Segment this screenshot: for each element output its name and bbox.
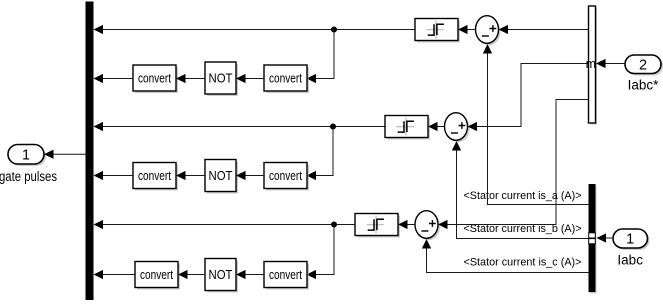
arrow into mux conv row3: [94, 270, 104, 279]
output port 1 "gate pulses": [8, 145, 46, 167]
arrow into mux row3: [94, 220, 104, 229]
junction row3: [331, 222, 337, 228]
svg-text:convert: convert: [269, 169, 302, 183]
NOT block row1: [205, 62, 238, 96]
arrow into relay3: [398, 220, 408, 229]
wire relay3 to mux: [103, 224, 355, 226]
arrow into mux row2: [94, 122, 104, 131]
demux bar (Iabc measured, black): [589, 184, 597, 294]
wire convert3b to NOT3: [246, 274, 265, 276]
convert block row2 right: [264, 163, 309, 191]
svg-text:Iabc: Iabc: [617, 253, 643, 268]
wire junction2 down: [316, 127, 334, 176]
wire demux to sum2 (ref ib*): [477, 64, 589, 127]
arrow into sum3 bottom: [422, 239, 431, 249]
sum block S2: [445, 113, 470, 143]
wire port2 to demux: [606, 63, 626, 65]
sum block S1: [476, 16, 501, 46]
demux bar (Iabc* reference): [589, 6, 598, 125]
arrow into mux conv row1: [94, 74, 104, 83]
relay R2: [385, 116, 430, 140]
sum block S3: [415, 211, 440, 241]
arrow into sum2 bottom: [452, 141, 461, 151]
svg-text:convert: convert: [138, 169, 171, 183]
wire mux to port 1: [53, 153, 86, 155]
wire convert2b to NOT2: [246, 175, 265, 177]
arrow into convert1a right: [176, 74, 186, 83]
wire sum2 to relay2: [438, 126, 445, 128]
arrow into sum1 right: [499, 25, 509, 34]
svg-text:NOT: NOT: [209, 267, 233, 282]
convert block row3 left: [135, 262, 180, 290]
arrow into mux conv row2: [94, 171, 104, 180]
wire junction1 down: [316, 30, 335, 79]
arrow into demux (Iabc): [597, 233, 607, 242]
svg-text:NOT: NOT: [209, 71, 233, 86]
wire port1 to demux: [606, 237, 613, 239]
wire is_a measured: [488, 54, 589, 205]
arrow into port 1: [44, 150, 54, 159]
arrow into mux row1: [94, 25, 104, 34]
wire NOT3 to convert3a: [188, 274, 206, 276]
wire demux to sum3 (ref ic*): [448, 100, 589, 225]
wire relay2 to mux: [103, 126, 385, 128]
NOT block row2: [205, 160, 238, 194]
port marker on demux: [589, 233, 596, 244]
convert block row1 left: [133, 65, 178, 93]
wire convert1a to mux: [103, 78, 133, 80]
arrow into convert2a right: [176, 171, 186, 180]
arrow into relay1: [458, 25, 468, 34]
input port 1 (Iabc): [613, 229, 650, 250]
arrow into convert2b: [307, 171, 317, 180]
svg-text:convert: convert: [140, 268, 173, 282]
NOT block row3: [205, 259, 238, 293]
wire is_c measured: [427, 249, 589, 273]
svg-text:2: 2: [639, 58, 647, 74]
svg-text:convert: convert: [138, 72, 171, 86]
svg-text:Iabc*: Iabc*: [628, 78, 660, 93]
svg-text:1: 1: [626, 232, 634, 248]
wire convert3a to mux: [103, 274, 135, 276]
junction row2: [330, 124, 336, 130]
svg-text:convert: convert: [269, 268, 302, 282]
svg-text:m: m: [586, 57, 596, 71]
mux bar (left, gate pulses mux): [86, 2, 94, 301]
wire convert1b to NOT1: [246, 78, 265, 80]
wire NOT2 to convert2a: [186, 175, 206, 177]
arrow into NOT3 right: [236, 270, 246, 279]
wire junction3 down: [316, 225, 335, 275]
convert block row3 right: [264, 262, 309, 290]
arrow into sum2 right: [468, 122, 478, 131]
arrow into sum3 right: [438, 220, 448, 229]
arrow into sum1 bottom: [483, 44, 492, 54]
convert block row2 left: [133, 163, 178, 191]
arrow into NOT2 right: [236, 171, 246, 180]
wire demux to sum1 (ref ia*): [508, 29, 589, 31]
wire convert2a to mux: [103, 175, 133, 177]
relay R1: [415, 19, 460, 43]
junction row1: [331, 27, 337, 33]
svg-text:1: 1: [22, 148, 30, 164]
wire sum3 to relay3: [408, 224, 416, 226]
input port 2: [625, 55, 663, 76]
wire relay1 to mux: [103, 29, 415, 31]
arrow into convert3b: [307, 270, 317, 279]
wire NOT1 to convert1a: [186, 78, 206, 80]
wire sum1 to relay1: [468, 29, 476, 31]
arrow into convert1b: [307, 74, 317, 83]
arrow into relay2: [428, 122, 438, 131]
svg-text:convert: convert: [269, 72, 302, 86]
wire is_b measured: [457, 151, 589, 239]
svg-text:gate pulses: gate pulses: [0, 169, 57, 184]
svg-text:NOT: NOT: [209, 168, 233, 183]
relay R3: [355, 214, 400, 238]
convert block row1 right: [264, 65, 309, 93]
svg-text:<Stator current is_a (A)>: <Stator current is_a (A)>: [464, 190, 582, 202]
arrow into convert3a right: [178, 270, 188, 279]
arrow into NOT1 right: [236, 74, 246, 83]
svg-text:<Stator current is_c (A)>: <Stator current is_c (A)>: [464, 256, 582, 268]
arrow into demux: [596, 59, 606, 68]
